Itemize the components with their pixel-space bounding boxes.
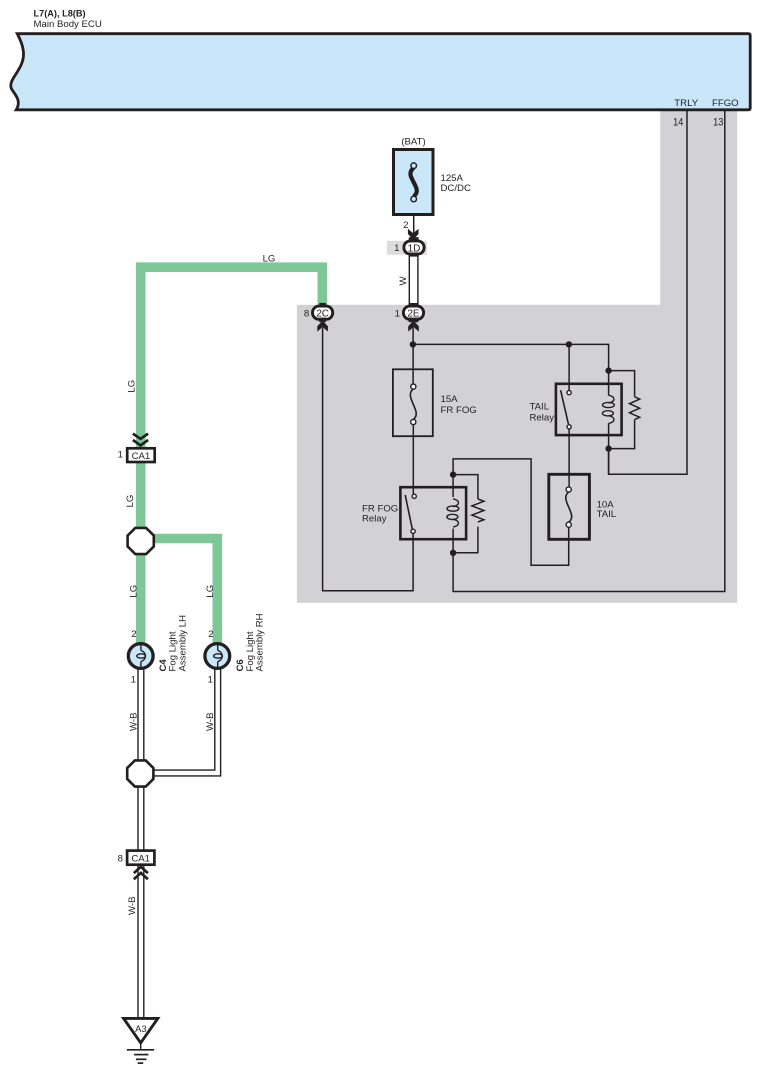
svg-text:1: 1 (131, 674, 136, 685)
svg-text:L7(A), L8(B): L7(A), L8(B) (34, 8, 86, 18)
svg-text:2: 2 (403, 220, 408, 231)
svg-text:Assembly LH: Assembly LH (177, 615, 188, 672)
svg-text:1: 1 (395, 308, 400, 319)
svg-text:LG: LG (128, 585, 139, 598)
svg-text:W: W (398, 276, 409, 286)
svg-text:2C: 2C (316, 309, 329, 320)
svg-text:Main Body ECU: Main Body ECU (34, 19, 102, 30)
svg-text:TRLY: TRLY (674, 98, 698, 109)
svg-text:LG: LG (263, 253, 276, 264)
svg-text:A3: A3 (135, 1023, 146, 1034)
svg-text:13: 13 (713, 116, 723, 128)
svg-text:FFGO: FFGO (712, 98, 739, 109)
svg-text:8: 8 (118, 853, 123, 864)
svg-text:W-B: W-B (128, 713, 139, 731)
svg-text:2: 2 (208, 629, 213, 640)
svg-text:1: 1 (118, 450, 123, 461)
svg-text:W-B: W-B (205, 713, 216, 731)
svg-text:FR FOG: FR FOG (441, 405, 477, 416)
svg-text:Assembly RH: Assembly RH (255, 613, 266, 671)
svg-text:1D: 1D (408, 243, 421, 254)
svg-text:TAIL: TAIL (597, 509, 617, 520)
svg-text:TAIL: TAIL (530, 402, 550, 413)
svg-text:2: 2 (131, 629, 136, 640)
svg-text:Relay: Relay (362, 513, 387, 524)
svg-text:8: 8 (304, 308, 309, 319)
svg-text:1: 1 (208, 674, 213, 685)
svg-text:LG: LG (205, 585, 216, 598)
svg-text:LG: LG (125, 495, 136, 508)
svg-text:W-B: W-B (127, 897, 138, 915)
svg-text:CA1: CA1 (131, 854, 150, 865)
svg-text:15A: 15A (441, 394, 459, 405)
svg-text:DC/DC: DC/DC (441, 183, 471, 194)
svg-text:CA1: CA1 (132, 451, 151, 462)
svg-text:(BAT): (BAT) (401, 137, 425, 148)
svg-text:14: 14 (673, 116, 683, 128)
svg-text:2E: 2E (407, 309, 420, 320)
svg-text:1: 1 (394, 243, 399, 254)
svg-text:Relay: Relay (530, 413, 555, 424)
svg-text:LG: LG (126, 380, 137, 393)
